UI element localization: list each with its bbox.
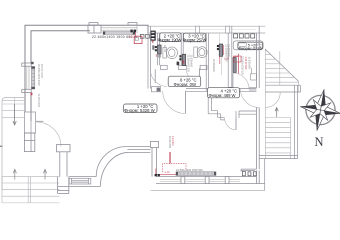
wall room5 left: [228, 26, 232, 87]
valve cluster south: [155, 174, 160, 176]
door stairs inner arc: [240, 88, 259, 108]
door room4 post: [236, 111, 239, 118]
arrow down steps: [13, 104, 16, 125]
radiator R6 left wall: [31, 62, 35, 95]
ground tick left: [0, 145, 3, 147]
svg-text:Фнорм: 2326: Фнорм: 2326: [238, 46, 262, 50]
toilet WC1: [163, 47, 178, 59]
svg-text:Фнорм: 5328 W: Фнорм: 5328 W: [124, 108, 155, 113]
wall zone4 zigzag: [208, 91, 224, 120]
door WC1 leaf: [154, 70, 156, 84]
wall mid band: [126, 147, 150, 153]
wall left cabinet: [24, 112, 35, 133]
door main leaf tick: [36, 120, 44, 122]
wall room5 bottom: [228, 87, 256, 90]
svg-text:22-300x600: 22-300x600: [212, 59, 215, 72]
wall hallway left: [148, 26, 151, 88]
svg-text:Фнорм: 257W: Фнорм: 257W: [183, 38, 207, 43]
svg-text:22-600x900: 22-600x900: [37, 94, 41, 108]
wall mid verticals: [152, 148, 157, 177]
door WC1 arc: [150, 70, 167, 87]
door WC2 arc: [186, 69, 199, 84]
door WC2 leaf: [198, 69, 200, 84]
radiator R1 top window: [103, 31, 135, 34]
svg-text:Фнорм: 0W: Фнорм: 0W: [174, 82, 197, 87]
door room4 arc: [225, 118, 236, 130]
window top glazing: [101, 25, 137, 33]
wall WC2 right: [206, 33, 208, 91]
svg-text:N: N: [315, 135, 324, 149]
stairs right upper diagonal: [265, 49, 299, 81]
svg-text:1,13 500: 1,13 500: [171, 136, 174, 146]
svg-text:1,01: 1,01: [128, 35, 134, 39]
label box room 1: [124, 104, 158, 113]
stairs right landing: [265, 85, 300, 92]
stairs right enclosure: [259, 85, 297, 159]
label box room 6: [168, 76, 201, 87]
radiator R4 corridor: [217, 44, 230, 75]
window left glazing: [27, 66, 29, 89]
compass rose diagonal points: [303, 93, 338, 128]
wall room1 northeast: [239, 111, 256, 114]
valve squares V1: [130, 30, 136, 33]
svg-text:Фнорм: 190W: Фнорм: 190W: [158, 37, 182, 42]
wall south A verticals: [60, 152, 67, 177]
svg-text:11-300x600: 11-300x600: [227, 44, 230, 57]
furniture squares southeast: [242, 172, 256, 176]
furniture squares row A: [140, 34, 149, 38]
wall WC1 bottom post left: [161, 65, 168, 69]
arrow up stairs A: [13, 169, 16, 179]
radiator R7 south: [176, 172, 216, 176]
wall WC2 bottom post right: [200, 65, 207, 69]
svg-text:22-500 500: 22-500 500: [168, 136, 171, 149]
wall zone6 bottom left post: [152, 87, 161, 92]
wall left end block: [24, 133, 34, 152]
wall top exterior thick part: [25, 25, 148, 97]
curved wall arc outer: [100, 152, 129, 186]
pipe red tick below panel: [152, 40, 154, 43]
svg-text:22-300: 22-300: [163, 45, 165, 53]
wall top thin band: [148, 26, 265, 33]
arrow up stairs right: [275, 108, 278, 117]
pipe red connection: [156, 169, 176, 175]
furniture squares row B: [234, 34, 255, 38]
stairs bottom edge faint: [2, 202, 60, 204]
stairs right lower treads: [265, 118, 290, 159]
toilet WC2: [194, 47, 207, 58]
curved wall arc inner: [96, 147, 126, 177]
label box room 3: [183, 33, 207, 42]
door zone6 arc: [163, 91, 186, 114]
label box room 2: [158, 33, 182, 43]
wall south band: [58, 177, 101, 187]
wall zone6 bottom right segment: [186, 89, 256, 92]
wall south piers: [181, 177, 229, 184]
stairs right upper treads: [265, 50, 298, 92]
sink room5: [251, 68, 257, 80]
label box room 4: [208, 88, 240, 98]
wall top band mullions: [160, 29, 256, 31]
wall left window divider lower: [22, 89, 31, 92]
wall southwest corner block: [58, 177, 69, 194]
wall south main band lines: [156, 177, 265, 184]
wall left window divider upper: [22, 63, 31, 66]
stair left edge line: [264, 49, 266, 159]
door room5 leaf: [232, 73, 234, 89]
zone6 post mark: [157, 88, 160, 92]
svg-text:Фнорм: 489 W: Фнорм: 489 W: [209, 93, 236, 98]
svg-text:11-500x900: 11-500x900: [247, 57, 250, 70]
electric panel dark B: [151, 31, 155, 40]
pillar south A: [57, 145, 71, 152]
window south glazing: [160, 180, 240, 182]
door room4 leaf: [235, 118, 237, 130]
radiator R3 WC middle: [177, 54, 215, 72]
wall WC1 left: [158, 33, 160, 65]
wall southeast notch: [241, 169, 256, 171]
label box room 5: [233, 41, 263, 50]
svg-text:1,05 22-500: 1,05 22-500: [244, 57, 247, 70]
door stairs leaf arc: [265, 92, 280, 108]
svg-text:22-500x1200 500: 22-500x1200 500: [241, 56, 244, 75]
pipe red square P1: [134, 36, 142, 43]
pipe red dashed loop: [163, 164, 186, 172]
wall far right edge: [264, 159, 266, 191]
door room5 arc: [233, 73, 249, 89]
svg-text:600 W 1500: 600 W 1500: [40, 64, 44, 79]
wall right interior: [256, 26, 259, 183]
window south: [69, 178, 91, 184]
door main arc: [37, 122, 62, 147]
compass rose circle: [306, 95, 335, 124]
zone room5 radiator R5: [233, 54, 250, 76]
wall WC bottom post middle: [178, 65, 186, 69]
radiator R2 WC1 left: [152, 45, 165, 58]
stairs bottom-left treads: [2, 177, 60, 203]
pipe red risers: [169, 152, 170, 164]
svg-text:1,05: 1,05: [224, 56, 230, 60]
terrace line south: [151, 190, 265, 192]
svg-text:22-300x600 300: 22-300x600 300: [187, 55, 190, 73]
svg-text:1,13: 1,13: [164, 170, 170, 174]
wall left lower: [25, 93, 31, 122]
steps left upper: [2, 98, 25, 118]
svg-text:11-300x600: 11-300x600: [189, 55, 192, 68]
pillar mid: [150, 141, 158, 147]
window top pier: [88, 23, 137, 33]
arrow up stairs B: [43, 169, 46, 179]
door zone6 leaf: [185, 91, 187, 114]
wall WC divider: [181, 33, 183, 65]
compass rose star: [297, 86, 340, 134]
terrace edge left: [2, 98, 25, 191]
